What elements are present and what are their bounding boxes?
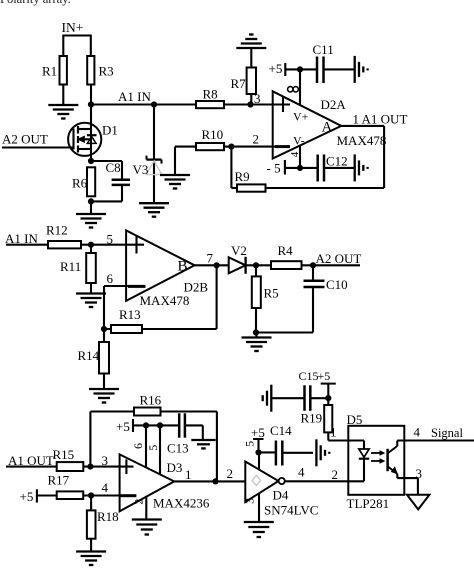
- svg-text:D3: D3: [167, 460, 183, 475]
- svg-text:C15: C15: [299, 369, 319, 383]
- svg-text:C11: C11: [313, 42, 334, 57]
- svg-text:SN74LVC: SN74LVC: [264, 503, 318, 518]
- svg-text:B: B: [178, 259, 188, 275]
- svg-text:V3: V3: [133, 162, 149, 177]
- svg-text:- 5: - 5: [267, 161, 281, 176]
- svg-text:MAX478: MAX478: [140, 293, 190, 308]
- svg-text:C14: C14: [270, 423, 292, 438]
- svg-text:D4: D4: [273, 488, 289, 503]
- svg-text:R18: R18: [97, 509, 119, 524]
- svg-text:2: 2: [253, 132, 260, 147]
- svg-text:R8: R8: [203, 87, 218, 102]
- svg-text:2: 2: [131, 499, 145, 505]
- svg-text:1: 1: [330, 424, 337, 439]
- svg-text:C13: C13: [167, 440, 189, 455]
- svg-text:A1 IN: A1 IN: [118, 89, 151, 104]
- svg-text:4: 4: [289, 151, 301, 157]
- svg-text:R7: R7: [231, 76, 247, 91]
- svg-text:V+: V+: [293, 110, 309, 124]
- svg-text:5: 5: [243, 441, 257, 447]
- svg-text:R13: R13: [119, 307, 141, 322]
- svg-text:4: 4: [414, 424, 421, 439]
- svg-text:R17: R17: [48, 473, 70, 488]
- svg-text:2: 2: [332, 467, 339, 482]
- svg-text:R5: R5: [264, 286, 279, 301]
- svg-text:MAX4236: MAX4236: [153, 496, 210, 511]
- svg-text:R3: R3: [99, 63, 114, 78]
- svg-text:C12: C12: [326, 154, 348, 169]
- svg-text:D1: D1: [102, 123, 118, 138]
- svg-text:A2 OUT: A2 OUT: [2, 132, 48, 147]
- svg-text:R9: R9: [235, 169, 250, 184]
- svg-text:TLP281: TLP281: [347, 496, 390, 511]
- svg-text:4: 4: [102, 480, 109, 495]
- svg-text:+5: +5: [251, 425, 265, 440]
- svg-text:R4: R4: [278, 243, 294, 258]
- svg-text:R15: R15: [53, 447, 75, 462]
- svg-text:4: 4: [298, 465, 305, 480]
- svg-text:+5: +5: [20, 489, 34, 504]
- svg-text:3: 3: [254, 91, 261, 106]
- svg-text:R14: R14: [78, 348, 100, 363]
- svg-text:R12: R12: [46, 223, 68, 238]
- svg-text:6: 6: [131, 443, 145, 449]
- svg-text:V2: V2: [231, 243, 247, 258]
- svg-text:R11: R11: [60, 259, 81, 274]
- svg-text:1 A1 OUT: 1 A1 OUT: [353, 112, 408, 127]
- svg-text:Polarity array.: Polarity array.: [0, 0, 71, 6]
- svg-text:MAX478: MAX478: [337, 133, 387, 148]
- svg-text:3: 3: [102, 453, 109, 468]
- svg-text:6: 6: [107, 271, 114, 286]
- svg-text:3: 3: [416, 466, 423, 481]
- svg-text:1: 1: [185, 467, 192, 482]
- svg-text:+5: +5: [269, 61, 283, 76]
- svg-text:5: 5: [107, 231, 114, 246]
- svg-text:R1: R1: [42, 63, 57, 78]
- svg-text:7: 7: [207, 251, 214, 266]
- svg-text:A: A: [322, 120, 333, 136]
- svg-text:R6: R6: [72, 176, 88, 191]
- svg-text:R16: R16: [140, 393, 162, 408]
- svg-text:5: 5: [146, 445, 160, 451]
- svg-text:D5: D5: [347, 412, 363, 427]
- svg-text:V-: V-: [293, 134, 305, 148]
- svg-text:IN+: IN+: [62, 20, 84, 35]
- svg-text:R19: R19: [301, 411, 323, 426]
- svg-text:Signal: Signal: [431, 426, 463, 440]
- svg-text:C10: C10: [326, 277, 348, 292]
- svg-text:A2 OUT: A2 OUT: [316, 251, 362, 266]
- svg-text:2: 2: [227, 466, 234, 481]
- svg-text:R10: R10: [202, 127, 224, 142]
- svg-text:+5: +5: [318, 369, 331, 383]
- svg-text:D2A: D2A: [321, 97, 347, 112]
- svg-text:C8: C8: [106, 160, 121, 175]
- svg-text:+5: +5: [116, 419, 130, 434]
- svg-text:3: 3: [243, 498, 257, 504]
